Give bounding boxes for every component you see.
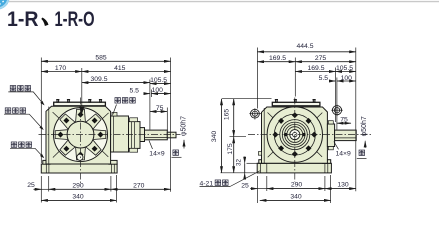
title 1-R, 1-R-O [7,8,95,31]
svg-text:105.5: 105.5 [336,65,353,72]
right view drain boss [258,152,261,156]
dim 270 [111,182,171,189]
svg-text:170: 170 [55,65,67,72]
dim 165 vertical [223,99,233,137]
left view cover bolts [56,100,102,103]
dim 290 right view [267,182,325,189]
svg-text:25: 25 [241,183,249,190]
left view housing body [46,106,111,164]
left view vertical centreline [80,98,82,184]
left view bell housing [111,116,129,152]
dim 169.5 upper [257,55,295,62]
left view output shaft [145,130,168,140]
right view bearing cap [327,121,334,150]
left view shaft tip [167,132,176,138]
svg-text:175: 175 [227,143,234,155]
svg-text:φ50h7: φ50h7 [180,116,187,136]
dim 32 vertical [235,157,261,180]
svg-text:169.5: 169.5 [269,55,286,62]
right view housing body [262,107,328,163]
dim 130 [325,182,356,189]
svg-text:444.5: 444.5 [296,43,313,50]
svg-text:130: 130 [337,182,349,189]
tick between 165 and 175 [230,136,247,138]
left view flange bolt heads [58,112,104,158]
svg-text:290: 290 [72,182,84,189]
extension lines right view [221,48,356,204]
dim 415 [82,65,171,72]
svg-text:75: 75 [156,105,164,112]
dim 340 left view [41,194,116,201]
svg-text:φ50h7: φ50h7 [361,116,368,136]
dim 175 vertical [227,137,234,173]
left view horizontal centreline [39,134,181,136]
key label 14x9 left view [149,141,182,158]
extension lines left view [41,58,170,203]
svg-text:14×9: 14×9 [336,150,352,157]
right view base plate [257,160,331,173]
left view flange lugs [55,109,106,160]
left view drain hole on flange [77,154,83,160]
svg-text:75: 75 [340,117,348,124]
label xie ya sai (pressure relief plug) [113,98,135,115]
dim 105.5 [150,77,171,84]
right view output shaft [335,130,357,141]
svg-text:5.5: 5.5 [130,87,140,94]
svg-text:1-R: 1-R [7,8,39,31]
left view flange outer circle [54,108,108,162]
svg-text:340: 340 [290,194,302,201]
dim 169.5 lower [295,65,335,72]
svg-text:169.5: 169.5 [307,65,324,72]
left view base plate [41,160,117,173]
left view corner rib lines [53,112,109,157]
dim 25 bottom right view [241,183,267,190]
pointer line for 170 [81,68,83,107]
svg-text:5.5: 5.5 [319,75,329,82]
left view shaft collar [140,128,145,142]
dim 290 left view [49,182,111,189]
dim 100 [151,87,170,94]
right view flange bolt heads [272,112,317,157]
svg-text:275: 275 [315,55,327,62]
right view flange circles [267,107,322,162]
svg-text:32: 32 [235,159,242,166]
dim 444.5 [257,43,355,52]
dim 100 right view [337,75,356,82]
svg-text:105.5: 105.5 [150,77,167,84]
label 4-21 drill holes [200,171,261,188]
left view bearing cap [129,118,141,152]
dim phi50h7 left view [180,116,187,149]
corner logo [0,0,10,10]
left view relief plug [112,112,117,116]
svg-text:340: 340 [211,131,218,143]
dim 75 right view [337,117,351,124]
svg-text:415: 415 [114,65,126,72]
dim 275 [295,55,356,62]
dim 105.5 right view [336,65,356,72]
right view cover bolts [275,100,316,103]
dim phi50h7 right view [361,116,368,148]
svg-text:100: 100 [341,75,353,82]
svg-text:290: 290 [291,182,303,189]
svg-text:270: 270 [133,182,145,189]
right view top-left lug [249,108,261,119]
dim 340 vertical [211,99,221,173]
dim 309.5 [82,76,150,83]
dim 5.5 [130,87,150,94]
svg-text:309.5: 309.5 [90,76,107,83]
svg-text:100: 100 [152,87,164,94]
top rule line [9,1,439,3]
right view dowel marks [284,133,287,136]
dim 170 [41,65,82,72]
right view horizontal centreline [248,134,372,136]
right view top-right lug [331,105,343,117]
svg-text:585: 585 [95,55,107,62]
svg-text:25: 25 [27,182,35,189]
right view corner rib lines [268,113,323,158]
dim 75 left view [150,105,167,112]
key label 14x9 right view [334,142,367,159]
left view top cover plate [54,102,106,106]
dim 340 bottom right view [260,194,331,201]
label zhu you sai (oil fill plug) [8,86,44,106]
label fang you sai (oil drain plug) [10,142,44,158]
right view vertical centreline [294,98,296,183]
svg-text:14×9: 14×9 [149,150,165,157]
dim 5.5 right view [319,75,336,82]
svg-text:165: 165 [223,109,230,121]
svg-text:1-R-O: 1-R-O [55,8,95,31]
left view flange inner bore [67,121,94,148]
right view top cover plate [272,102,320,106]
label you liang ji (oil gauge) [4,108,44,130]
dim 25 bottom left [27,182,48,189]
dim 585 [41,55,170,62]
svg-text:340: 340 [72,194,84,201]
